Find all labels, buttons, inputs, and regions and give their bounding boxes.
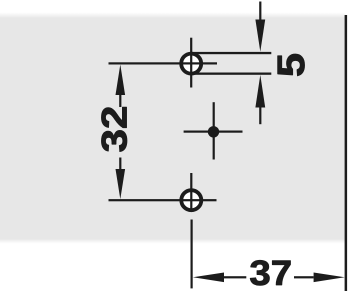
dim 32: upper stub line — [119, 93, 121, 107]
dim 37: label "37" — [250, 260, 290, 285]
bottom screw hole white bore — [181, 190, 201, 210]
dim 5: upper dimension line — [259, 2, 261, 23]
bottom screw hole ring — [181, 190, 201, 210]
dim 32: upper arrow (up) — [116, 65, 126, 96]
dim 5: lower dimension line — [259, 106, 261, 125]
dim 5: label "5" (rotated 90 CCW) — [278, 54, 305, 76]
dim 5: lower arrow (up) — [255, 75, 265, 108]
dim 37: right dimension line — [294, 276, 314, 278]
node C: centre point dot — [208, 126, 219, 137]
top screw hole white bore — [181, 54, 201, 74]
node C: centre point crosshair horizontal — [184, 131, 243, 133]
dim 32: lower arrow (down) — [116, 169, 126, 199]
panel front edge line (right ext. line for 37) — [345, 15, 348, 291]
node C: centre point crosshair vertical — [213, 102, 215, 159]
dim 32: label "32" (rotated 90 CCW) — [102, 107, 127, 151]
top tangent line (5 dim, upper ext.) — [191, 52, 271, 54]
node A: top screw hole crosshair horizontal (also ext. line for 32) — [109, 62, 218, 64]
top screw hole ring — [181, 54, 201, 74]
dim 32: lower stub line — [119, 158, 121, 172]
bottom tangent line (5 dim, lower ext.) — [191, 73, 271, 75]
panel (workpiece) — [0, 0, 1, 1]
dim 5: upper arrow (down) — [255, 20, 265, 52]
node B: bottom screw hole crosshair vertical — [190, 173, 192, 210]
dim 37: left extension line — [191, 220, 193, 289]
node B: bottom screw hole crosshair horizontal (also ext. line for 32) — [109, 199, 217, 201]
dim 37: left dimension line — [223, 276, 246, 278]
dim 37: left arrow (left) — [193, 273, 224, 283]
node A: top screw hole crosshair vertical — [190, 38, 192, 88]
dim 37: right arrow (right) — [314, 273, 345, 283]
